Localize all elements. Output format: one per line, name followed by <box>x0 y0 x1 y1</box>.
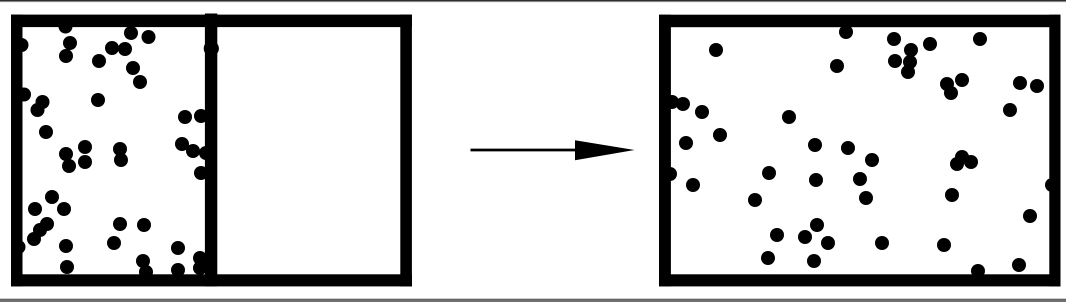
gas particle L35 <box>27 232 41 246</box>
top rule <box>0 0 1066 1</box>
gas particle L42 <box>136 254 150 268</box>
gas particle L19 <box>62 159 76 173</box>
gas particle R21 <box>679 136 693 150</box>
gas particle L6 <box>118 42 132 56</box>
gas particle L39 <box>113 217 127 231</box>
gas particle R27 <box>955 150 969 164</box>
gas particle R43 <box>770 228 784 242</box>
gas particle L7 <box>92 54 106 68</box>
left container (box with partition, gas on left half) <box>11 15 412 287</box>
gas particle R41 <box>971 264 985 278</box>
gas particle L16 <box>91 93 105 107</box>
gas particle R12 <box>940 77 954 91</box>
gas particle L2 <box>15 38 29 52</box>
gas particle R8 <box>903 55 917 69</box>
gas particle L10 <box>142 30 156 44</box>
gas particle L1 <box>59 20 73 34</box>
gas particle R47 <box>761 251 775 265</box>
gas particle L37 <box>59 239 73 253</box>
bottom rule <box>0 298 1066 301</box>
gas particle R46 <box>821 236 835 250</box>
gas particle R26 <box>853 172 867 186</box>
gas particle L13 <box>17 88 31 102</box>
gas particle R34 <box>809 173 823 187</box>
gas particle R16 <box>1003 103 1017 117</box>
gas particle R38 <box>1023 209 1037 223</box>
partition wall <box>205 14 217 287</box>
gas particle L23 <box>114 153 128 167</box>
gas particle R25 <box>865 153 879 167</box>
gas particle R31 <box>686 178 700 192</box>
gas particle L38 <box>60 260 74 274</box>
gas particle L14 <box>36 95 50 109</box>
gas particle R11 <box>955 73 969 87</box>
gas particle L26 <box>175 137 189 151</box>
gas particle R1 <box>709 43 723 57</box>
gas particle R24 <box>841 141 855 155</box>
gas particle L12 <box>204 41 219 56</box>
gas particle R14 <box>1013 76 1027 90</box>
gas particle L11 <box>133 75 147 89</box>
gas particle L15 <box>31 103 45 117</box>
gas particle L30 <box>45 190 59 204</box>
right container (gas expanded to fill whole box) <box>659 15 1061 287</box>
gas particle R40 <box>937 238 951 252</box>
gas particle L4 <box>59 49 73 63</box>
gas particle R15 <box>1030 79 1044 93</box>
gas particle R19 <box>695 105 709 119</box>
gas particle L46 <box>193 251 207 265</box>
gas particle L5 <box>105 41 119 55</box>
gas particle R5 <box>923 37 937 51</box>
gas particle R33 <box>748 193 762 207</box>
gas particle R45 <box>810 218 824 232</box>
gas particle L3 <box>63 36 77 50</box>
gas particle R3 <box>830 59 844 73</box>
gas particle R2 <box>839 25 853 39</box>
gas particle L25 <box>194 109 208 123</box>
gas particle R35 <box>859 191 873 205</box>
gas particle R9 <box>901 65 915 79</box>
gas particle R44 <box>798 230 812 244</box>
gas particle R10 <box>973 32 987 46</box>
gas particle L44 <box>171 241 185 255</box>
gas particle R23 <box>808 138 822 152</box>
gas particle L43 <box>139 265 153 279</box>
gas particle R7 <box>888 54 902 68</box>
gas particle L8 <box>126 61 140 75</box>
gas particle L22 <box>113 142 127 156</box>
gas particle L20 <box>78 140 92 154</box>
gas particle R39 <box>875 236 889 250</box>
gas particle L45 <box>171 263 185 277</box>
gas particle L34 <box>33 223 47 237</box>
gas particle R28 <box>964 155 978 169</box>
gas particle L28 <box>199 146 213 160</box>
gas particle R13 <box>944 86 958 100</box>
gas particle L33 <box>40 217 54 231</box>
gas particle L40 <box>137 218 151 232</box>
gas particle R42 <box>1012 258 1026 272</box>
gas particle L27 <box>186 144 200 158</box>
gas particle L21 <box>78 155 92 169</box>
gas particle R22 <box>782 110 796 124</box>
gas particle L31 <box>28 202 42 216</box>
gas particle L9 <box>124 26 138 40</box>
gas particle L18 <box>59 147 73 161</box>
gas particle R48 <box>807 254 821 268</box>
gas particle R37 <box>1045 178 1059 192</box>
gas particle L32 <box>57 202 71 216</box>
gas particle R32 <box>762 166 776 180</box>
gas particle L41 <box>107 236 121 250</box>
gas particle R6 <box>904 43 918 57</box>
gas particle L29 <box>194 166 208 180</box>
gas particle R29 <box>950 157 964 171</box>
gas particle L24 <box>178 110 192 124</box>
gas particle R4 <box>887 32 901 46</box>
gas particle R17 <box>665 95 679 109</box>
gas particle R18 <box>676 97 690 111</box>
gas particle R36 <box>945 188 959 202</box>
gas particle L36 <box>12 240 26 254</box>
gas particle R20 <box>713 128 727 142</box>
gas particle R30 <box>663 167 677 181</box>
arrow (process arrow) <box>471 140 635 160</box>
gas particle L17 <box>39 125 53 139</box>
gas particle L47 <box>193 261 207 275</box>
